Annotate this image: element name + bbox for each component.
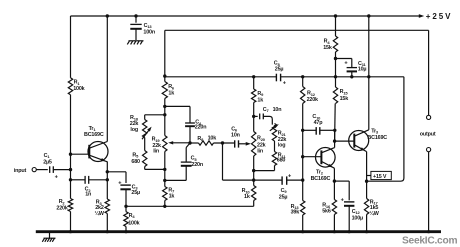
ground below C13 bbox=[127, 41, 143, 45]
label R20 22k lin bbox=[257, 136, 266, 155]
svg-text:lin: lin bbox=[153, 149, 159, 155]
label C4 220n bbox=[195, 120, 207, 131]
input terminal bbox=[32, 168, 36, 172]
label R18 22k log bbox=[130, 115, 139, 133]
capacitor C12 bbox=[344, 202, 354, 232]
label C5 220n bbox=[191, 156, 203, 168]
wire emitter to C12 bbox=[334, 181, 349, 200]
svg-text:680: 680 bbox=[131, 159, 140, 165]
svg-text:input: input bbox=[14, 168, 27, 174]
resistor R6 bbox=[162, 76, 167, 135]
label R5 680 bbox=[131, 152, 140, 165]
capacitor C8 bbox=[276, 74, 280, 82]
svg-text:C9: C9 bbox=[281, 188, 288, 194]
svg-text:25µ: 25µ bbox=[279, 194, 288, 200]
svg-text:R12: R12 bbox=[307, 91, 316, 97]
wire Tr1 emitter to C3 bbox=[106, 170, 126, 183]
label R12 220k bbox=[307, 91, 318, 104]
label R9 1k bbox=[257, 91, 264, 103]
transistor Tr1 bbox=[88, 142, 108, 162]
svg-text:R19: R19 bbox=[152, 137, 161, 143]
svg-text:C7: C7 bbox=[263, 107, 270, 113]
label R19 22k lin bbox=[152, 137, 161, 155]
svg-text:C5: C5 bbox=[191, 156, 198, 162]
ground symbol bottom left bbox=[42, 232, 55, 242]
label Tr3 BC169C bbox=[367, 128, 387, 140]
label Tr2 BC169C bbox=[311, 169, 331, 182]
label R16 5k6 bbox=[322, 203, 331, 215]
svg-text:2µ5: 2µ5 bbox=[43, 160, 52, 166]
potentiometer R19 bbox=[163, 136, 167, 187]
label R6 1k bbox=[168, 84, 175, 96]
potentiometer R21 bbox=[270, 124, 279, 142]
svg-text:BC169C: BC169C bbox=[367, 135, 387, 141]
svg-text:C1: C1 bbox=[44, 153, 51, 159]
resistor R16 bbox=[332, 200, 336, 232]
svg-text:10µ: 10µ bbox=[358, 67, 367, 73]
svg-text:100k: 100k bbox=[73, 86, 84, 92]
svg-text:220k: 220k bbox=[307, 97, 318, 103]
watermark SeekIC.com bbox=[402, 236, 457, 247]
label C11 10u bbox=[358, 61, 367, 73]
label R4 100k bbox=[128, 213, 139, 227]
wire Tr2 collector to Tr3 base bbox=[333, 139, 354, 142]
svg-text:R8: R8 bbox=[197, 136, 204, 142]
label C6 10n bbox=[231, 126, 240, 138]
label input bbox=[14, 168, 27, 174]
junction lower bus x253 bbox=[252, 178, 255, 181]
wire Tr3 collector line bbox=[368, 16, 370, 130]
label C2 1n bbox=[85, 187, 92, 198]
svg-text:BC169C: BC169C bbox=[84, 132, 104, 138]
wire Tr1 base bbox=[69, 153, 90, 156]
svg-text:25µ: 25µ bbox=[131, 190, 140, 196]
plus sign C9 bbox=[288, 173, 292, 179]
svg-text:680: 680 bbox=[277, 157, 286, 163]
arrow +25V bbox=[419, 14, 424, 18]
svg-text:R1: R1 bbox=[74, 80, 81, 86]
svg-text:15k: 15k bbox=[340, 96, 349, 102]
junction bus-R9 bbox=[252, 75, 255, 78]
svg-text:100n: 100n bbox=[143, 29, 155, 35]
wire bootstrap return U bbox=[367, 77, 404, 181]
junction rail-Tr3 collector bbox=[367, 14, 370, 17]
label R13 39k bbox=[291, 204, 300, 216]
svg-text:1k: 1k bbox=[244, 194, 250, 200]
plus sign C11 bbox=[344, 60, 348, 66]
wire Tr3 emitter down bbox=[365, 152, 368, 199]
svg-text:220n: 220n bbox=[191, 162, 203, 168]
wiper arrow R19 bbox=[168, 141, 190, 144]
output terminal top bbox=[427, 115, 431, 119]
label R11 680 bbox=[277, 153, 287, 164]
wire C6-junction down to lower bus bbox=[223, 143, 254, 180]
label R15 15k bbox=[340, 89, 349, 102]
capacitor C3 bbox=[120, 185, 130, 208]
capacitor C6 bbox=[235, 140, 246, 147]
resistor R11 bbox=[272, 141, 276, 166]
junction bus-collector line bbox=[367, 75, 370, 78]
wire Tr2 collector up bbox=[334, 130, 336, 147]
plus sign C8 bbox=[283, 80, 287, 86]
resistor R9 bbox=[252, 77, 256, 117]
potentiometer R20 bbox=[252, 116, 256, 185]
wire R18-R5 bbox=[144, 138, 146, 151]
svg-text:22k: 22k bbox=[257, 142, 266, 148]
capacitor C9 bbox=[254, 176, 305, 184]
svg-text:log: log bbox=[278, 143, 286, 149]
potentiometer R18 bbox=[142, 120, 152, 140]
svg-text:+: + bbox=[283, 80, 287, 86]
resistor R8 bbox=[190, 141, 234, 145]
svg-text:BC169C: BC169C bbox=[311, 176, 331, 182]
svg-text:1k: 1k bbox=[169, 194, 175, 200]
wire to C4 top bbox=[163, 105, 190, 108]
label C1 2u5 bbox=[43, 153, 52, 166]
wire Tr1 emitter branch bbox=[106, 162, 108, 232]
ground rail (bottom) bbox=[36, 230, 441, 233]
capacitor C5 bbox=[181, 143, 192, 180]
wire R1/base branch bbox=[70, 16, 72, 232]
svg-text:1k: 1k bbox=[168, 91, 174, 97]
svg-text:10k: 10k bbox=[208, 136, 217, 142]
capacitor C4 bbox=[185, 106, 195, 143]
svg-text:lin: lin bbox=[257, 149, 263, 155]
resistor R4 15k (top) bbox=[333, 16, 337, 77]
svg-text:log: log bbox=[130, 127, 138, 133]
capacitor C11 bbox=[336, 59, 358, 79]
label +25V bbox=[426, 12, 453, 21]
label C10 47p bbox=[312, 114, 323, 126]
label C7 10n bbox=[263, 107, 282, 113]
svg-text:R20: R20 bbox=[257, 136, 266, 142]
capacitor C2 bbox=[69, 176, 109, 184]
svg-text:output: output bbox=[420, 132, 436, 138]
label output bbox=[420, 132, 436, 138]
wire input to C1 bbox=[36, 169, 48, 171]
svg-text:C12: C12 bbox=[352, 209, 361, 215]
plus sign C3 bbox=[118, 180, 122, 186]
svg-text:+: + bbox=[55, 174, 59, 180]
svg-text:SeekIC.com: SeekIC.com bbox=[402, 236, 457, 247]
junction dots ground rail bbox=[69, 230, 430, 233]
label C13 100n bbox=[143, 23, 155, 35]
wiper arrow R20 bbox=[246, 142, 251, 146]
svg-text:Tr2: Tr2 bbox=[316, 169, 324, 175]
junction bus-R15 bbox=[334, 75, 337, 78]
resistor R3 bbox=[105, 199, 109, 214]
label C8 25u bbox=[274, 61, 284, 73]
label C9 25u bbox=[279, 188, 288, 200]
label R3 2k2 quarterW bbox=[95, 200, 105, 217]
wire output feed line (top) bbox=[165, 30, 429, 115]
wire +25V supply rail bbox=[71, 15, 422, 17]
capacitor C10 bbox=[301, 127, 336, 135]
wire tone network return line bbox=[126, 205, 254, 207]
resistor R15 bbox=[333, 77, 337, 141]
wire Tr1 collector to rail bbox=[106, 16, 108, 142]
capacitor C7 bbox=[254, 114, 273, 125]
junction bus-R6 bbox=[163, 74, 166, 77]
wire bootstrap bus bbox=[165, 76, 404, 78]
label R7 1k bbox=[168, 187, 175, 199]
resistor R13 bbox=[301, 201, 305, 232]
svg-text:¼W: ¼W bbox=[95, 210, 105, 217]
junction C4/C5/R8/wiper bbox=[188, 141, 191, 144]
resistor R4 100k (bottom) bbox=[124, 206, 128, 231]
svg-text:47p: 47p bbox=[314, 120, 324, 126]
junction C6 drop bbox=[221, 141, 224, 144]
svg-text:R15: R15 bbox=[340, 89, 349, 95]
transistor Tr2 bbox=[316, 148, 336, 169]
svg-text:10n: 10n bbox=[273, 107, 282, 113]
resistor R1 bbox=[68, 78, 72, 95]
svg-text:10n: 10n bbox=[231, 132, 240, 138]
label R2 220k bbox=[56, 199, 67, 211]
capacitor C1 bbox=[50, 166, 71, 173]
svg-text:220n: 220n bbox=[195, 125, 207, 131]
label R21 22k log bbox=[278, 131, 287, 149]
svg-text:15k: 15k bbox=[323, 45, 332, 51]
svg-text:R5: R5 bbox=[132, 152, 139, 158]
svg-text:25µ: 25µ bbox=[275, 66, 284, 72]
label Tr1 BC169C bbox=[84, 126, 104, 138]
wire C5 bottom bbox=[163, 179, 186, 182]
svg-text:R4: R4 bbox=[129, 213, 136, 219]
output terminal bottom bbox=[427, 148, 431, 152]
svg-text:100k: 100k bbox=[128, 221, 139, 227]
transistor Tr3 bbox=[349, 130, 369, 152]
svg-text:R6: R6 bbox=[168, 84, 175, 90]
svg-text:C13: C13 bbox=[144, 23, 153, 29]
label C12 100u bbox=[352, 209, 363, 222]
svg-text:5k6: 5k6 bbox=[322, 208, 331, 214]
svg-text:220k: 220k bbox=[56, 205, 67, 211]
svg-text:39k: 39k bbox=[291, 210, 300, 216]
junction bus-R12 bbox=[301, 75, 304, 78]
junction rail-Tr1 collector bbox=[106, 14, 109, 17]
junction R9/C7/R20 bbox=[252, 115, 255, 118]
resistor R2 bbox=[68, 199, 72, 212]
svg-text:Tr3: Tr3 bbox=[371, 128, 379, 134]
label R1 100k bbox=[73, 80, 84, 93]
junction rail-R4 bbox=[334, 14, 337, 17]
resistor R7 bbox=[163, 187, 167, 209]
wire Tr2 base bbox=[301, 155, 321, 158]
+15V box bbox=[367, 171, 392, 179]
wire output bottom to ground rail bbox=[428, 152, 430, 232]
capacitor C13 bbox=[130, 14, 141, 40]
resistor R12 bbox=[301, 77, 305, 201]
svg-text:100µ: 100µ bbox=[352, 215, 363, 221]
svg-text:1n: 1n bbox=[85, 192, 91, 198]
wire R11 bottom to R20 column bbox=[252, 166, 275, 173]
svg-text:+: + bbox=[344, 60, 348, 66]
wire R5 bottom to column F bbox=[145, 167, 167, 172]
resistor R17 bbox=[364, 199, 368, 232]
label R10 1k bbox=[242, 188, 251, 200]
wire Tr2 emitter down bbox=[333, 168, 336, 199]
svg-text:1k: 1k bbox=[257, 97, 263, 103]
resistor R10 bbox=[252, 186, 256, 207]
svg-text:+: + bbox=[288, 173, 292, 179]
label R4 15k bbox=[323, 39, 332, 51]
junction base node - C1 bbox=[69, 168, 72, 171]
svg-text:+15 V: +15 V bbox=[373, 174, 387, 180]
plus sign C1 bbox=[55, 174, 59, 180]
label R8 10k bbox=[197, 136, 216, 143]
resistor R5 bbox=[143, 151, 147, 167]
label R17 1k5 quarterW bbox=[369, 199, 379, 217]
svg-text:+25V: +25V bbox=[426, 12, 453, 21]
svg-text:¼W: ¼W bbox=[369, 210, 379, 217]
svg-text:R9: R9 bbox=[257, 91, 264, 97]
label C3 25u bbox=[131, 184, 140, 196]
plus sign C12 bbox=[341, 197, 345, 203]
wire to R18 top bbox=[145, 113, 167, 119]
